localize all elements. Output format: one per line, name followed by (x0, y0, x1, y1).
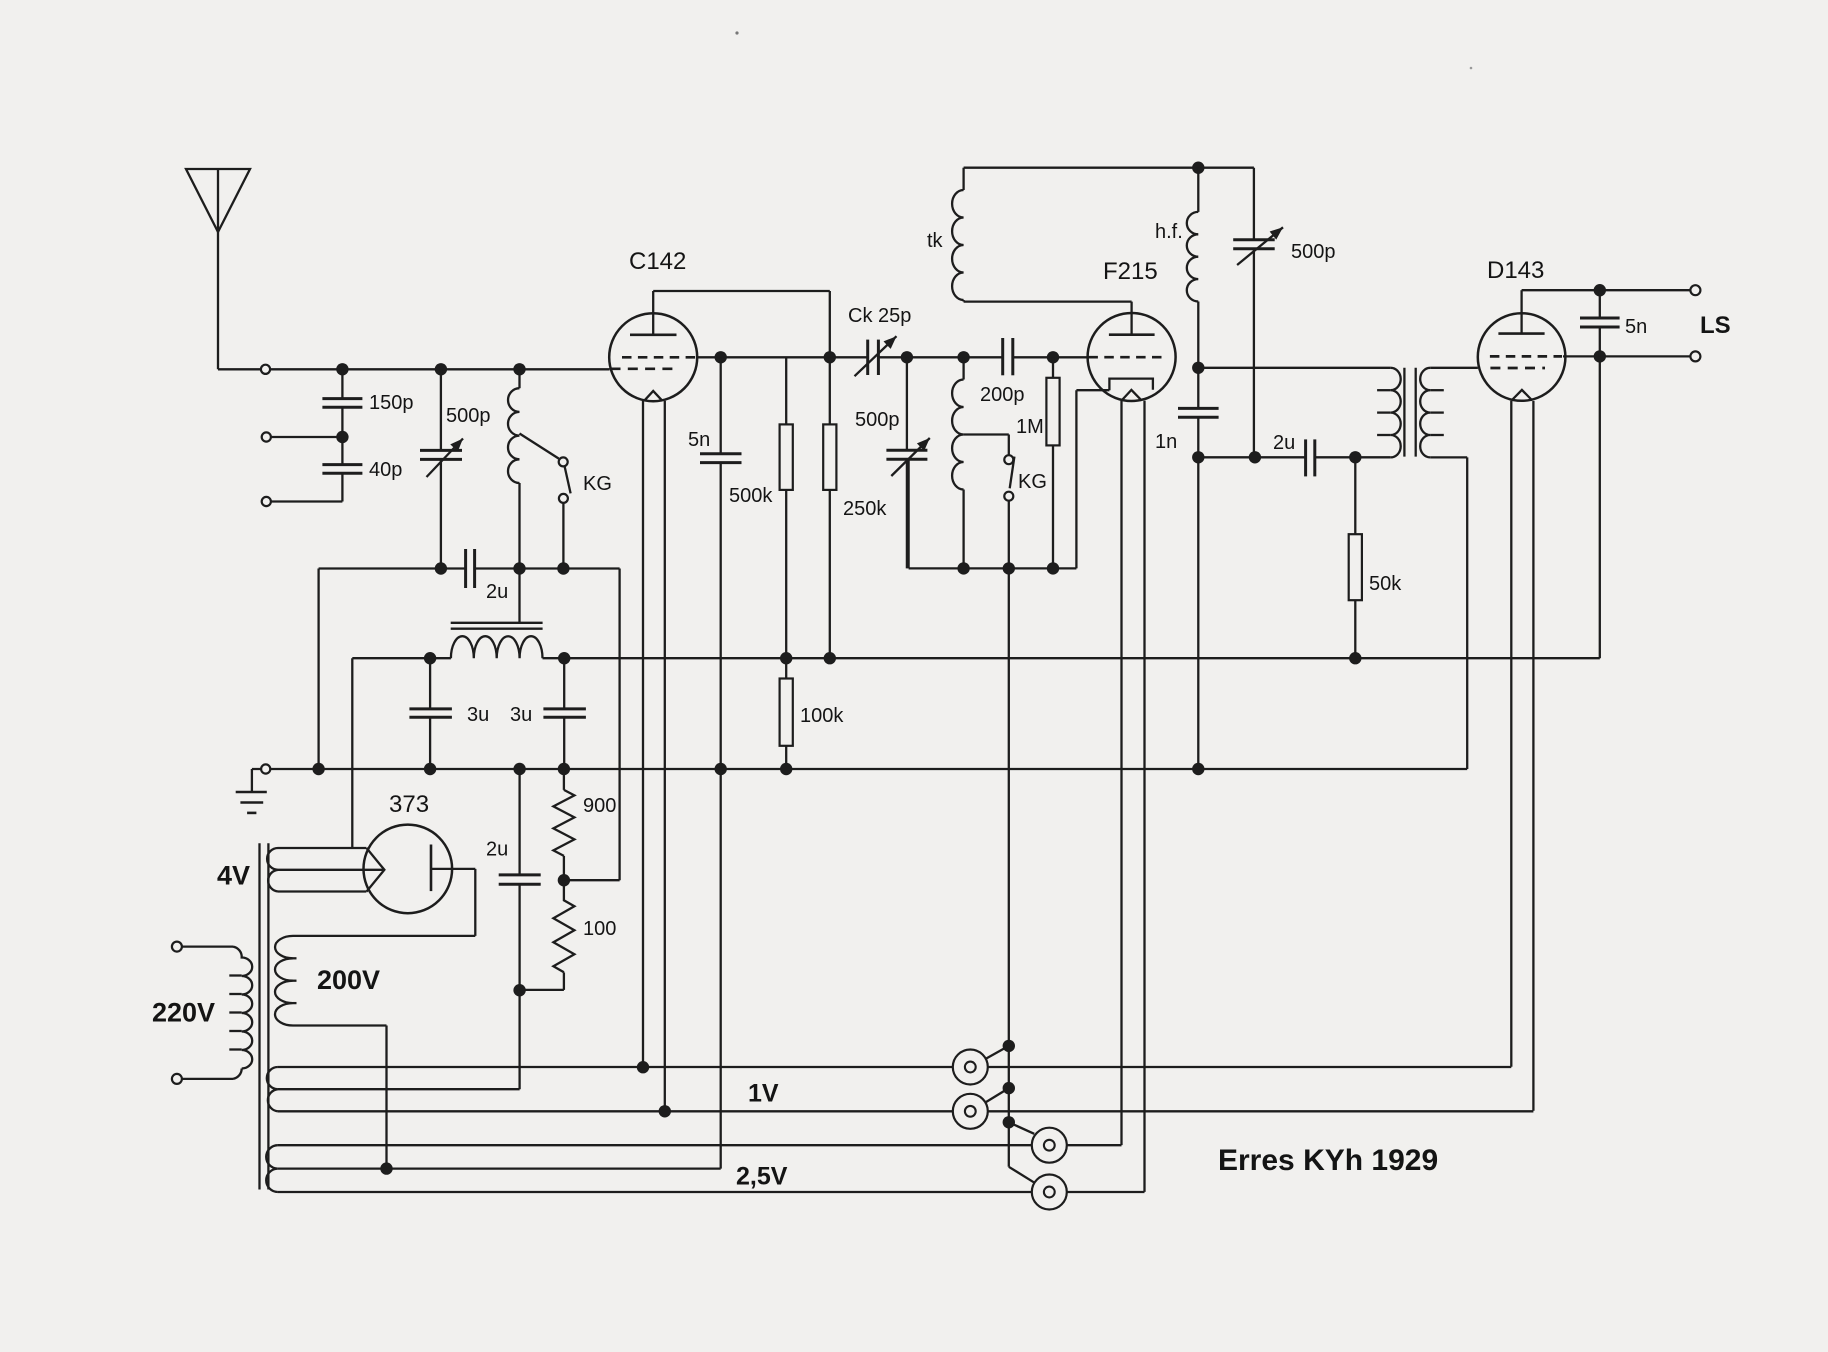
node dot 5n-ground (715, 763, 727, 775)
wire rail457 (1198, 456, 1390, 458)
resistor 1M (1016, 357, 1060, 568)
ground (236, 769, 267, 813)
node dot S1d (1003, 1040, 1015, 1052)
wire 40p to terminal3 (271, 500, 342, 502)
tube 373 anode (293, 845, 475, 936)
wire F215 leg left (1120, 401, 1122, 1146)
wire C142 anode to 250k (653, 291, 830, 357)
wire ground rail (252, 768, 1467, 770)
socket 2 (953, 1094, 988, 1129)
node dot H2 (558, 652, 570, 664)
capacitor 150p (322, 369, 413, 437)
node dot tk-hf (1192, 162, 1204, 174)
tube D143 grid (1490, 355, 1562, 358)
wire tk top rail (964, 167, 1254, 169)
wire B-rail down-left (317, 569, 319, 770)
terminal LS bottom (1690, 351, 1700, 361)
svg-text:2u: 2u (486, 839, 508, 861)
wire S3 link (1009, 1122, 1034, 1134)
wire HT rail right (543, 657, 1600, 659)
svg-text:h.f.: h.f. (1155, 221, 1183, 243)
inductor L2 grid coil (952, 357, 963, 568)
node dot H3 (780, 652, 792, 664)
socket 1 (953, 1050, 988, 1085)
label 373 (389, 791, 429, 818)
terminal input 3 (262, 497, 271, 506)
node dot H1 (424, 652, 436, 664)
tube 373 filament (367, 848, 385, 892)
node dot A2 (435, 363, 447, 375)
wire B-rail down-right (564, 569, 620, 881)
svg-text:LS: LS (1700, 312, 1731, 339)
wire F215 leg right (1143, 401, 1145, 1192)
svg-text:40p: 40p (369, 459, 402, 481)
capacitor 5n C142 (688, 357, 742, 1168)
svg-text:KG: KG (583, 473, 612, 495)
svg-text:250k: 250k (843, 498, 887, 520)
svg-text:1V: 1V (748, 1080, 779, 1108)
tube F215 cathode (1109, 379, 1153, 391)
node dot S3d (1003, 1116, 1015, 1128)
wire C142 leg right (664, 401, 666, 1111)
node dot B3 (557, 562, 569, 574)
node dot R3 (1349, 451, 1361, 463)
svg-text:100k: 100k (800, 705, 844, 727)
node dot H5 (1349, 652, 1361, 664)
tube C142 filament line (611, 367, 677, 370)
wire core-stub (518, 569, 520, 623)
wire secondary top to D143 (1430, 367, 1478, 369)
label LS (1700, 312, 1731, 339)
node dot G5 (780, 763, 792, 775)
node dot C1 (715, 351, 727, 363)
choke core (451, 623, 543, 629)
capacitor 2u coupling (1273, 432, 1315, 476)
svg-text:100: 100 (583, 918, 616, 940)
wire tk bottom to F215 anode (964, 300, 1132, 302)
node dot L4a (380, 1162, 392, 1174)
transformer T2 core (260, 843, 269, 1189)
terminal ground (261, 764, 270, 773)
svg-text:D143: D143 (1487, 257, 1544, 284)
tube F215 heater apex (1122, 390, 1142, 401)
svg-text:50k: 50k (1369, 573, 1402, 595)
svg-text:2u: 2u (1273, 432, 1295, 454)
label D143 (1487, 257, 1544, 284)
tube D143 envelope (1478, 313, 1566, 401)
node dot A1 (336, 363, 348, 375)
svg-text:3u: 3u (510, 704, 532, 726)
label F215 (1103, 258, 1158, 285)
terminal LS top (1690, 285, 1700, 295)
capacitor 200p (980, 338, 1025, 406)
node dot E1 (957, 562, 969, 574)
resistor 100k (780, 658, 845, 769)
transformer T2 winding 2.5V (266, 1145, 1144, 1192)
node dot E3 (1047, 562, 1059, 574)
tube C142 grid (622, 356, 698, 359)
resistor 50k (1349, 457, 1403, 658)
title Erres KYh 1929 (1218, 1144, 1438, 1177)
node dot A3 (513, 363, 525, 375)
capacitor 1n (1155, 408, 1219, 769)
inductor tk (927, 168, 964, 302)
socket 3 (1032, 1128, 1067, 1163)
node dot B1 (435, 562, 447, 574)
wire S2 link (986, 1088, 1009, 1102)
label C142 (629, 248, 686, 275)
node dot R1 (1192, 451, 1204, 463)
svg-text:220V: 220V (152, 998, 215, 1028)
wire S1 link (986, 1046, 1009, 1059)
label 2,5V (736, 1163, 788, 1191)
antenna (186, 169, 250, 369)
tube D143 filament line (1490, 367, 1545, 370)
node dot L3a (659, 1105, 671, 1117)
tube C142 heater apex (645, 391, 662, 400)
variable capacitor 500p C2 (855, 357, 930, 568)
paper speck (735, 31, 1472, 69)
label 4V (217, 861, 250, 891)
transformer T2 winding 4V (267, 848, 384, 892)
svg-text:Erres KYh 1929: Erres KYh 1929 (1218, 1144, 1438, 1177)
svg-text:5n: 5n (688, 429, 710, 451)
tube F215 envelope (1088, 313, 1176, 401)
wire C142 grid out (698, 356, 868, 358)
svg-text:2u: 2u (486, 581, 508, 603)
svg-text:500p: 500p (855, 409, 900, 431)
wire D143 leg right (1532, 401, 1534, 1111)
wire selector (1008, 568, 1010, 1166)
wire S4 link (1009, 1167, 1035, 1183)
node dot L1a (637, 1061, 649, 1073)
transformer T1 secondary (1420, 368, 1444, 458)
wire D143 anode to LS (1522, 289, 1691, 291)
terminal input 2 (262, 432, 271, 441)
node dot P1 (513, 984, 525, 996)
tube 373 envelope (364, 825, 453, 914)
node dot H4 (824, 652, 836, 664)
transformer T2 winding 220V (172, 942, 252, 1084)
wire antenna to C142 grid (node A) (218, 368, 610, 370)
node dot LS2 (1594, 350, 1606, 362)
node dot G2 (424, 763, 436, 775)
svg-text:Ck 25p: Ck 25p (848, 305, 911, 327)
wire HT rail left (352, 658, 451, 848)
node dot LS1 (1594, 284, 1606, 296)
wire C142 leg left (642, 401, 644, 1067)
svg-text:2,5V: 2,5V (736, 1163, 788, 1191)
transformer T1 primary (1377, 368, 1401, 458)
node dot R2 (1249, 451, 1261, 463)
tube F215 anode (1109, 302, 1155, 335)
svg-text:500p: 500p (1291, 241, 1336, 263)
wire terminal2 to A4 (271, 436, 343, 438)
tube C142 envelope (609, 313, 697, 401)
variable capacitor 500p C3 (1233, 168, 1335, 458)
inductor choke (451, 636, 543, 658)
inductor L1 antenna coil (508, 369, 520, 568)
tube C142 anode (630, 291, 677, 335)
tube D143 heater apex (1512, 390, 1533, 401)
terminal antenna (261, 365, 270, 374)
svg-text:4V: 4V (217, 861, 250, 891)
node dot 250k-top (824, 351, 836, 363)
label 1V (748, 1080, 779, 1108)
label 220V (152, 998, 215, 1028)
wire secondary bottom down (1430, 457, 1467, 769)
svg-text:KG: KG (1018, 471, 1047, 493)
node dot D3 (1047, 351, 1059, 363)
capacitor 3u first (409, 658, 489, 769)
wire hf to transformer primary (1198, 367, 1390, 369)
svg-text:200V: 200V (317, 965, 380, 995)
svg-text:500p: 500p (446, 405, 491, 427)
svg-text:C142: C142 (629, 248, 686, 275)
transformer T1 core (1404, 368, 1415, 457)
capacitor 40p (322, 437, 402, 502)
svg-text:1M: 1M (1016, 416, 1044, 438)
svg-text:1n: 1n (1155, 431, 1177, 453)
node dot G3 (513, 763, 525, 775)
svg-text:200p: 200p (980, 384, 1025, 406)
switch KG2 (964, 435, 1047, 569)
node dot P2 (558, 874, 570, 886)
svg-text:373: 373 (389, 791, 429, 818)
capacitor 3u second (510, 658, 586, 769)
svg-text:F215: F215 (1103, 258, 1158, 285)
label 200V (317, 965, 380, 995)
node dot D2 (957, 351, 969, 363)
node dot hf-anode (1192, 362, 1204, 374)
transformer T2 winding 1V (267, 1067, 1534, 1111)
transformer T2 winding 200V (275, 936, 297, 1026)
tube F215 grid (1088, 356, 1164, 359)
svg-text:900: 900 (583, 795, 616, 817)
resistor 250k (823, 357, 887, 658)
wire Ck to F215 grid (878, 356, 1087, 358)
resistor 900 (553, 769, 616, 880)
node dot S2d (1003, 1082, 1015, 1094)
svg-text:tk: tk (927, 230, 944, 252)
node dot G6 (1192, 763, 1204, 775)
socket 4 (1032, 1175, 1067, 1210)
resistor 500k (729, 357, 793, 658)
wire KG rail (909, 390, 1110, 568)
wire D143 leg left (1510, 401, 1512, 1067)
node dot E2 (1003, 562, 1015, 574)
node dot D1 (901, 351, 913, 363)
switch KG1 (520, 434, 612, 569)
variable capacitor 500p C1 (420, 369, 491, 568)
node dot G4 (558, 763, 570, 775)
node dot B2 (513, 562, 525, 574)
resistor 100 (520, 880, 617, 990)
capacitor 5n output (1580, 290, 1647, 356)
tube D143 anode (1498, 290, 1544, 333)
node dot A4 (336, 431, 348, 443)
capacitor 2u psu (486, 769, 541, 1089)
inductor h.f. (1155, 168, 1198, 409)
svg-text:3u: 3u (467, 704, 489, 726)
capacitor 2u decoupling (319, 549, 620, 603)
svg-text:5n: 5n (1625, 316, 1647, 338)
wire LS2 down to HT rail (1599, 356, 1601, 658)
svg-text:500k: 500k (729, 485, 773, 507)
node dot G1 (312, 763, 324, 775)
variable capacitor Ck 25p (848, 305, 911, 376)
wire D143 grid out (1563, 355, 1690, 357)
wire 200V bottom (293, 1026, 387, 1169)
svg-text:150p: 150p (369, 392, 414, 414)
